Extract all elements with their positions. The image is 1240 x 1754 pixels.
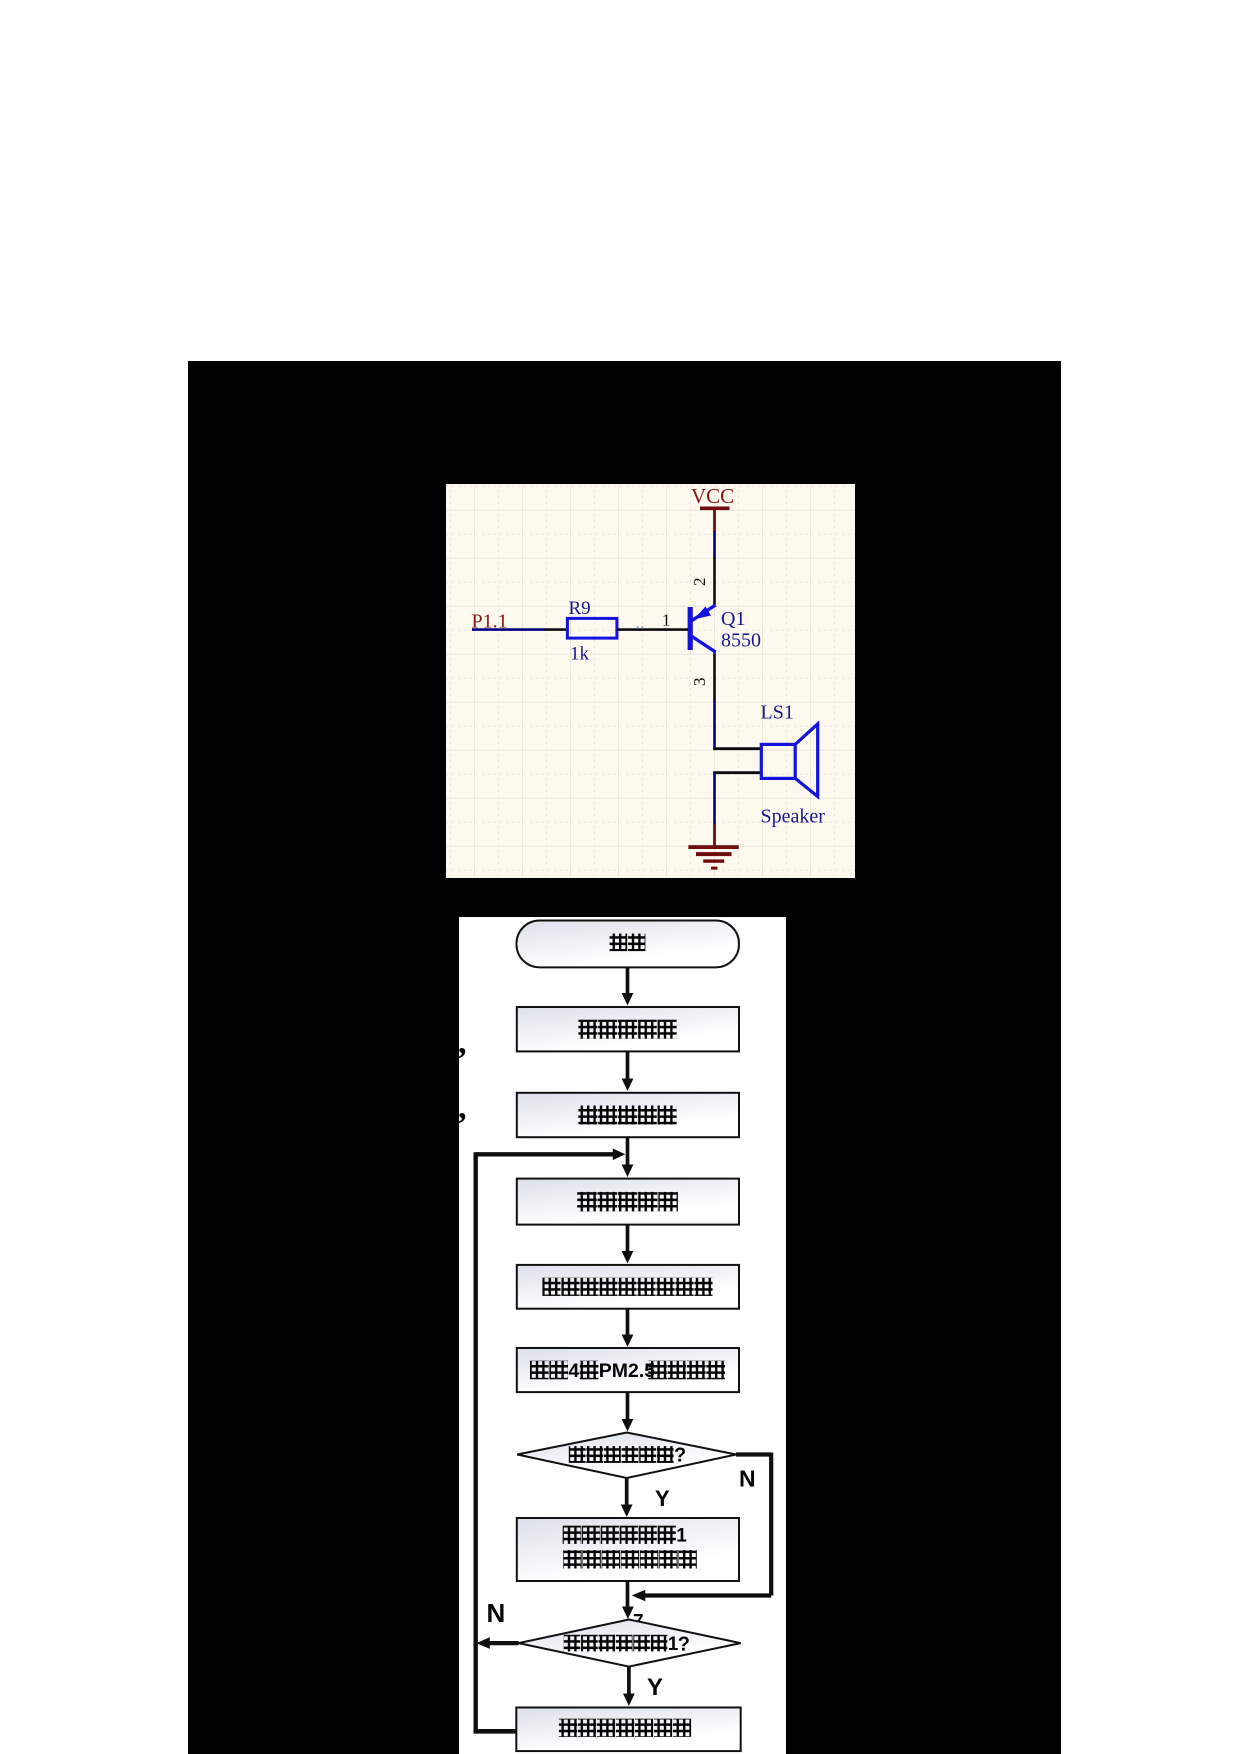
loop return arrow into junction	[475, 1148, 625, 1160]
svg-text:R9: R9	[569, 598, 591, 619]
svg-text:LS1: LS1	[761, 702, 794, 724]
flowchart box6: 报警标志位置1 / 打开对应继电器	[517, 1517, 739, 1580]
N branch to left loop	[476, 1637, 518, 1649]
svg-text:Q1: Q1	[721, 608, 745, 630]
flowchart box4: 根据按键值执行操作	[517, 1264, 739, 1308]
svg-text:?: ?	[677, 1633, 689, 1655]
arrow decision1 Y to box6	[621, 1476, 633, 1516]
svg-text:VCC: VCC	[691, 484, 734, 508]
decision diamond2: 报警标志位为1?	[518, 1619, 740, 1666]
arrow decision2 Y to box7	[623, 1666, 635, 1705]
grid (decorative)	[446, 484, 855, 878]
svg-text:1: 1	[676, 1525, 687, 1546]
flowchart box7: 打开蜂鸣器报警	[516, 1707, 740, 1751]
wire R9 to Q1 base	[617, 628, 688, 631]
wire VCC to Q1 pin2 (navy segment)	[713, 531, 716, 558]
svg-text:3: 3	[690, 678, 709, 687]
svg-text:N: N	[739, 1465, 756, 1491]
svg-text:?: ?	[674, 1444, 686, 1466]
wire Q1 pin3 down (black)	[713, 654, 716, 701]
svg-text:N: N	[486, 1597, 505, 1627]
speaker LS1 horn	[795, 724, 818, 797]
svg-text:PM2.5: PM2.5	[599, 1359, 655, 1381]
arrow box3 to box4	[621, 1224, 633, 1263]
wire box2 to box3 with loop junction	[621, 1137, 633, 1177]
resistor R9	[567, 618, 617, 638]
svg-text:Y: Y	[655, 1485, 670, 1510]
svg-text:4: 4	[568, 1359, 579, 1381]
wire speaker to ground (navy)	[713, 773, 716, 825]
arrow terminator to box1	[621, 967, 633, 1005]
wire P1.1 to R9 (navy)	[472, 628, 545, 631]
wire to ground (dark red stub)	[713, 824, 716, 846]
flowchart box1: 系统初始化	[517, 1007, 739, 1051]
svg-text:Speaker: Speaker	[761, 806, 826, 828]
arrow box5 to decision1	[621, 1392, 633, 1431]
arrow box6 to decision2	[622, 1580, 634, 1618]
speaker LS1 body	[761, 744, 795, 778]
wire to speaker top pin	[713, 747, 762, 750]
flowchart box5: 获取4路PM2.5传感器值	[517, 1347, 739, 1391]
flowchart terminator: 开始	[516, 920, 738, 967]
wire VCC to Q1 pin2 (black segment)	[713, 557, 716, 605]
transistor Q1 8550 (PNP)	[688, 605, 716, 655]
big left loop wire	[473, 1152, 516, 1733]
flowchart box2: 屏幕预显示	[517, 1092, 739, 1136]
wire to speaker bottom pin	[713, 771, 762, 774]
svg-text:,: ,	[459, 1024, 467, 1061]
svg-text:1: 1	[662, 611, 671, 630]
circuit schematic figure	[446, 484, 855, 878]
arrow box4 to box5	[621, 1308, 633, 1346]
black panel backdrop	[188, 361, 1061, 1754]
arrow box1 to box2	[621, 1051, 633, 1091]
svg-text:1k: 1k	[570, 644, 590, 665]
wire pin3 (navy segment)	[713, 701, 716, 750]
N branch loop right	[632, 1452, 771, 1601]
junction artifact	[637, 626, 644, 628]
svg-text:8550: 8550	[721, 630, 761, 652]
ground symbol	[688, 845, 738, 869]
flowchart figure	[459, 917, 786, 1754]
flowchart box3: 读取按键值	[517, 1178, 739, 1224]
VCC power bar symbol	[700, 507, 730, 532]
svg-text:2: 2	[690, 578, 709, 587]
svg-text:Y: Y	[647, 1673, 663, 1700]
decision diamond1: 传感器值过高?	[517, 1432, 736, 1477]
wire navy-to-R9 (black)	[545, 628, 568, 631]
svg-text:,: ,	[459, 1089, 467, 1126]
